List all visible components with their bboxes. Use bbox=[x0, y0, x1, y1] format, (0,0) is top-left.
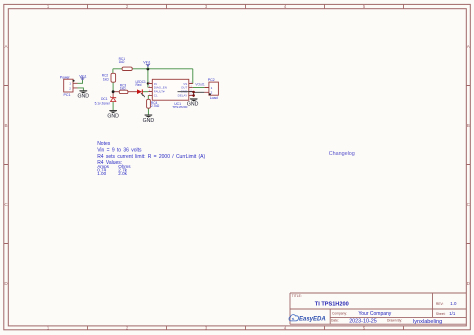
svg-text:PC1: PC1 bbox=[64, 93, 71, 97]
wire: GND pin net to ground (over IC) bbox=[178, 92, 194, 97]
ground (DC1) bbox=[107, 111, 119, 120]
wire: LED cathode to FAULT# pin bbox=[143, 91, 149, 93]
IC U1: UC1 TPS1H200 high-side switch bbox=[148, 79, 193, 109]
svg-text:Red: Red bbox=[136, 83, 142, 87]
junction (IN pin) bbox=[147, 82, 149, 84]
svg-text:1kΩ: 1kΩ bbox=[103, 77, 109, 81]
notes value table bbox=[97, 164, 131, 176]
ground (IC GND/DELAY) bbox=[187, 99, 199, 108]
svg-text:EasyEDA: EasyEDA bbox=[299, 317, 326, 323]
svg-text:2.7kΩ: 2.7kΩ bbox=[151, 104, 160, 108]
svg-text:1/1: 1/1 bbox=[449, 311, 456, 316]
wire: top Vin rail bbox=[113, 68, 193, 70]
svg-text:Company:: Company: bbox=[332, 311, 347, 315]
svg-text:1.00: 1.00 bbox=[97, 171, 106, 176]
svg-text:R4 sets current limit: R = 200: R4 sets current limit: R = 2000 / CurrLi… bbox=[97, 154, 205, 160]
junction (RC2 / RC3 / zener) bbox=[112, 90, 115, 93]
wire: RC4 to GND bbox=[147, 108, 149, 115]
svg-text:Date:: Date: bbox=[331, 319, 339, 323]
svg-text:Vin1: Vin1 bbox=[143, 60, 150, 64]
resistor RC2 bbox=[102, 73, 116, 82]
resistor RC1 bbox=[119, 57, 133, 70]
svg-text:B: B bbox=[467, 123, 470, 128]
title block values bbox=[315, 301, 457, 325]
frame column numbers top bbox=[47, 4, 366, 9]
svg-text:DC1: DC1 bbox=[101, 97, 108, 101]
svg-text:GND: GND bbox=[143, 118, 155, 124]
resistor RC4 bbox=[147, 99, 160, 108]
svg-text:Notes: Notes bbox=[97, 141, 111, 147]
svg-text:GND: GND bbox=[187, 102, 199, 108]
frame row letters left bbox=[4, 44, 8, 286]
wire: RC2 column drop bbox=[112, 69, 114, 74]
power flag Vin1 (at PC1) bbox=[79, 74, 86, 80]
resistor RC3 bbox=[119, 84, 128, 94]
svg-text:PC2: PC2 bbox=[208, 78, 215, 82]
wire: RC3 to LED anode bbox=[128, 91, 137, 93]
svg-text:1kΩ: 1kΩ bbox=[119, 60, 125, 64]
notes text block bbox=[97, 141, 205, 166]
svg-text:VOut1: VOut1 bbox=[195, 83, 205, 87]
frame row letters right bbox=[467, 44, 471, 286]
EasyEDA logo bbox=[289, 315, 326, 323]
junction (DELAY pin) bbox=[192, 94, 195, 97]
svg-text:GND: GND bbox=[78, 93, 90, 99]
zener diode DC1 bbox=[95, 97, 117, 106]
svg-text:2023-10-25: 2023-10-25 bbox=[349, 318, 377, 324]
ground (PC1) bbox=[78, 91, 90, 100]
wire: OUT pin to PC2 pin1 bbox=[193, 87, 205, 89]
wire: DELAY pin to GND net bbox=[192, 94, 195, 96]
svg-text:B: B bbox=[4, 123, 7, 128]
svg-text:Changelog: Changelog bbox=[329, 151, 355, 157]
svg-text:Sheet:: Sheet: bbox=[436, 312, 446, 316]
power flag Vin1 (at rail) bbox=[143, 60, 150, 69]
wire: PC1 pin2 to GND bbox=[78, 88, 84, 91]
wire: PC1 pin1 to Vin flag bbox=[78, 80, 83, 84]
svg-text:REV:: REV: bbox=[436, 302, 444, 306]
svg-text:1.0: 1.0 bbox=[450, 301, 457, 306]
wire: CL pin to RC4 bbox=[147, 95, 149, 99]
svg-text:Drawn By:: Drawn By: bbox=[387, 319, 402, 323]
svg-text:1kΩ: 1kΩ bbox=[120, 86, 126, 90]
wire: PC2 pin2 to GND net bbox=[194, 91, 205, 93]
frame column numbers bottom bbox=[47, 326, 366, 331]
svg-text:lynxlabeling: lynxlabeling bbox=[413, 319, 442, 325]
wire: junction to zener bbox=[112, 92, 114, 98]
connector PC1 bbox=[60, 75, 78, 96]
svg-text:Vin = 9 to 36 volts: Vin = 9 to 36 volts bbox=[97, 147, 142, 153]
frame column ticks top bbox=[88, 4, 404, 8]
svg-text:Your Company: Your Company bbox=[358, 311, 391, 317]
wire: Vin rail to VS pin bbox=[192, 69, 194, 84]
svg-text:2.0k: 2.0k bbox=[118, 171, 127, 176]
svg-text:5.1v Zener: 5.1v Zener bbox=[95, 102, 111, 106]
ground (RC4) bbox=[143, 115, 155, 124]
title block field labels bbox=[292, 294, 446, 322]
connector PC2 bbox=[204, 78, 218, 100]
svg-text:CL: CL bbox=[154, 94, 158, 98]
frame row ticks right bbox=[466, 86, 470, 244]
svg-text:DELAY: DELAY bbox=[178, 94, 188, 98]
wire: Vin rail to IN pin bbox=[147, 69, 149, 88]
junction (GND pin / PC2 pin2) bbox=[192, 91, 195, 94]
svg-text:TPS1H200: TPS1H200 bbox=[172, 105, 187, 109]
wire: junction to RC3 bbox=[113, 91, 119, 93]
LED LEDC1 bbox=[136, 80, 147, 97]
junction (Vin rail / Vin flag / IN wire) bbox=[147, 68, 150, 71]
wire: zener to GND bbox=[112, 102, 114, 111]
wire: RC2 to junction bbox=[112, 82, 114, 92]
svg-text:TI TPS1H200: TI TPS1H200 bbox=[315, 301, 349, 307]
svg-text:GND: GND bbox=[107, 114, 119, 120]
title block lines bbox=[290, 293, 466, 324]
svg-text:Load: Load bbox=[210, 96, 218, 100]
frame row ticks left bbox=[4, 86, 9, 244]
svg-text:TITLE:: TITLE: bbox=[292, 294, 302, 298]
frame column ticks bottom bbox=[88, 326, 404, 330]
